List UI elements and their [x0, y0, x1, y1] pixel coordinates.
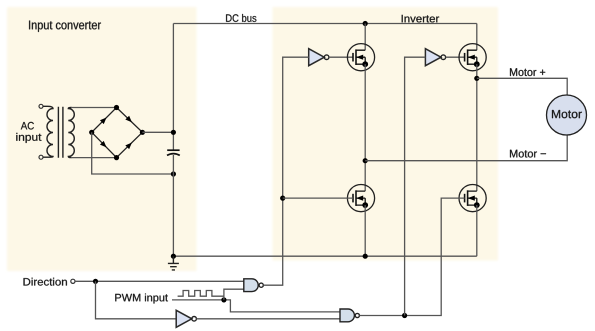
transistor Q3 top-right MOSFET [459, 44, 486, 71]
ground symbol [168, 256, 179, 270]
inverter U1 (drives Q1 gate) [309, 49, 325, 66]
inverter U2 (drives Q3 gate) [425, 49, 441, 66]
capacitor C1 top plate [167, 149, 179, 151]
label Inverter [402, 15, 439, 23]
wire PWM branch up to G1 input B [224, 289, 244, 300]
capacitor C1 bottom plate [167, 154, 180, 156]
label Direction [24, 278, 67, 286]
diode D4 arrow bottom-right edge [125, 141, 133, 149]
wire motor minus [365, 135, 567, 161]
transformer T1 primary winding [43, 106, 53, 157]
node PWM branch [221, 297, 226, 302]
transistor Q1 top-left MOSFET [347, 44, 374, 71]
node bridge left [89, 130, 94, 135]
terminal AC input bottom [39, 155, 43, 159]
transistor Q2 bottom-left MOSFET [347, 185, 374, 212]
wire Direction branch down to U3 [96, 281, 177, 319]
wire Q3 source to motor plus node [476, 64, 478, 191]
motor M1 [547, 95, 587, 135]
label Motor minus [510, 150, 546, 158]
wire DC bus vertical positive [172, 24, 174, 151]
wire Q1 source to motor minus node [364, 64, 366, 191]
diode D3 arrow bottom-left edge [100, 141, 108, 149]
wire U2 output to Q3 gate [446, 56, 465, 58]
transistor Q4 bottom-right MOSFET [459, 185, 486, 212]
wire motor plus [477, 78, 567, 95]
wire DC negative vertical [172, 155, 174, 256]
label Input converter [29, 21, 101, 32]
wire U1 output to Q1 gate [329, 56, 353, 58]
node ground junction [171, 254, 176, 259]
wire Q4 source to ground bus [476, 205, 478, 256]
wire secondary bottom to bridge [71, 157, 117, 159]
wire DC bus top horizontal [173, 23, 476, 25]
label DC bus [226, 14, 256, 22]
transformer T1 core [58, 107, 63, 158]
wire Q3 drain drop [476, 24, 478, 51]
wire bridge minus return [92, 132, 174, 174]
node G2 output branch [402, 313, 407, 318]
nand gate G2 [340, 309, 354, 322]
node Q2 gate branch [280, 196, 285, 201]
wire G1 output up [263, 57, 308, 285]
node bridge top [114, 105, 119, 110]
label PWM input [115, 294, 168, 304]
wire PWM baseline [172, 300, 340, 312]
transformer T1 secondary winding [68, 107, 74, 157]
wire Q1 drain drop [364, 24, 366, 51]
terminal AC input top [39, 104, 43, 108]
node motor plus junction [474, 76, 479, 81]
bridge rectifier diamond [92, 108, 143, 158]
node bridge right [140, 130, 145, 135]
wire Q2 source to ground bus [364, 205, 366, 256]
input converter panel [7, 7, 197, 271]
wire G2 output [359, 198, 464, 315]
terminal Direction [71, 279, 75, 283]
wire secondary top to bridge [71, 107, 117, 109]
node Q2 source ground junction [363, 254, 368, 259]
node Direction branch [93, 279, 98, 284]
node DC bus to Q1 drain [363, 21, 368, 26]
wire bridge plus output [142, 131, 173, 133]
node bridge bottom [114, 155, 119, 160]
label AC input [21, 122, 34, 130]
wire branch up to U2 input [405, 57, 426, 315]
PWM pulse waveform [178, 291, 224, 297]
wire ground bus [173, 255, 476, 257]
nand gate G1 [244, 279, 258, 292]
inverter U3 (direction invert) [176, 310, 192, 327]
wire to Q2 gate [283, 197, 353, 199]
diode D2 arrow top-right edge [125, 116, 133, 124]
diode D1 arrow top-left edge [100, 116, 108, 124]
node bridge minus to bus [171, 171, 176, 176]
node motor minus junction [363, 158, 368, 163]
wire Direction to G1 input A [75, 280, 244, 282]
node bridge plus to bus [171, 130, 176, 135]
label Motor plus [510, 68, 545, 76]
wire U3 output to G2 input B [196, 318, 340, 320]
inverter panel [273, 7, 499, 261]
